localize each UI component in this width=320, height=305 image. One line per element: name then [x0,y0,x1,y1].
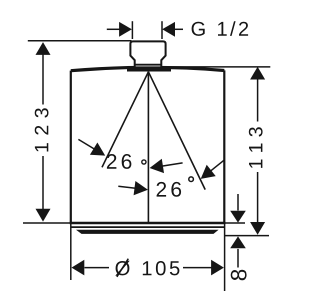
G1/2 dimension right arrowhead [162,22,175,37]
G1/2 dimension right tick [161,21,163,39]
123 dimension bottom extension line [23,222,70,224]
diameter dimension line left segment [85,267,110,269]
8 dimension lower arrowhead [230,236,246,248]
shower head body bottom rim line [71,226,225,228]
diameter label slash extension [117,259,128,277]
113 dimension top extension line [162,66,271,68]
G1/2 dimension left arrowhead [119,22,132,37]
8 dimension upper arrowhead [230,211,246,223]
diameter dimension left extension line [70,223,72,280]
spray right diagonal 26deg [148,72,205,190]
shower head body top center bar [127,67,171,72]
G1/2 dimension right stem [175,28,183,30]
G1/2 connector block with foot [130,41,165,67]
shower head body top arc [71,67,225,70]
G1/2 dimension left stem [107,28,120,30]
123 dimension top arrowhead [36,42,51,55]
123 label [35,108,49,151]
G1/2 label [192,21,249,36]
113 dimension line lower segment [257,172,259,233]
123 dimension line upper segment [42,44,44,105]
113 dimension bottom arrowhead [250,222,265,235]
diameter dimension line right segment [183,267,212,269]
diameter dimension left arrowhead [72,260,85,276]
angle label 26deg lower [157,182,182,197]
8 dimension top extension line [225,222,245,224]
leader arrow to centerline (upper, from right) [150,159,183,173]
degree circle upper [142,160,146,164]
connector foot groove line [135,64,162,66]
113 dimension top arrowhead [250,67,265,80]
G1/2 dimension left tick [131,21,133,39]
shower head body bottom edge [70,222,226,224]
leader arrow to centerline (lower, from left) [118,181,148,195]
spray left diagonal 26deg [102,72,148,168]
spray disc [76,230,219,234]
113 dimension bottom extension line [224,235,269,237]
diameter dimension right extension line [224,223,226,291]
shower head body right edge [223,70,225,223]
123 dimension bottom arrowhead [36,209,51,222]
angle label 26deg upper [107,154,132,169]
leader arrow to right diagonal [201,160,225,179]
leader arrow to left diagonal [78,139,105,155]
spray centerline [147,72,149,223]
8 label [231,270,247,281]
degree circle lower [189,177,194,182]
113 dimension line upper segment [257,69,259,122]
diameter label [115,261,179,276]
8 dimension upper stem [237,194,239,211]
diameter dimension right arrowhead [211,260,224,276]
123 dimension line lower segment [42,156,44,220]
113 label [249,127,263,168]
123 dimension top extension line [28,40,132,42]
shower head body left edge [70,71,72,223]
8 dimension lower stem [237,249,239,268]
